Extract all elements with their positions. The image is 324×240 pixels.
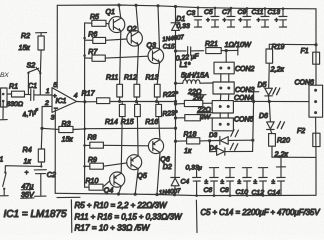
- wire input to R1: [7, 93, 12, 95]
- capacitor C12: [252, 168, 268, 197]
- wire Q3 collector to rail: [158, 6, 160, 50]
- resistor R21: [205, 40, 252, 54]
- capacitor C1: [28, 82, 37, 101]
- capacitor C13: [268, 9, 288, 27]
- node mid rail junctions: [252, 100, 271, 103]
- svg-text:R8: R8: [88, 134, 97, 141]
- resistor R4: [23, 128, 45, 166]
- wire R1 to C1: [25, 93, 31, 95]
- wire D1 to C15 node: [175, 31, 177, 51]
- resistor R23: [162, 105, 213, 121]
- wire output column L1 to R22: [175, 83, 177, 104]
- connector CON4: [212, 95, 253, 113]
- svg-text:CON6: CON6: [295, 80, 315, 87]
- wire Q3 emitter to R13: [157, 62, 160, 84]
- svg-text:R12: R12: [124, 74, 137, 81]
- svg-text:R17 = 10 ÷ 33Ω /5W: R17 = 10 ÷ 33Ω /5W: [75, 224, 151, 233]
- node R18 tee: [174, 140, 177, 143]
- svg-text:R11: R11: [106, 74, 118, 81]
- svg-text:Q6: Q6: [160, 155, 170, 163]
- svg-text:C14: C14: [268, 190, 281, 197]
- svg-text:R13: R13: [146, 74, 159, 81]
- svg-text:C5 ÷ C14 = 2200μF ÷ 4700μF/35V: C5 ÷ C14 = 2200μF ÷ 4700μF/35V: [201, 208, 321, 217]
- wire Q4 emitter to R14: [121, 117, 122, 174]
- wire C1 to IC1 pin1: [34, 94, 52, 96]
- resistor R14: [105, 102, 125, 126]
- svg-text:R16: R16: [145, 119, 158, 126]
- wire CON3-CON4 links: [220, 94, 228, 101]
- svg-text:±: ±: [205, 179, 209, 186]
- node R3 to bus: [84, 128, 87, 131]
- wire CON4-CON5 links: [220, 113, 228, 118]
- wire IC1 pin5 supply column to top rail: [56, 5, 58, 88]
- svg-text:+: +: [257, 17, 261, 24]
- wire output rail y101: [110, 101, 175, 103]
- svg-text:C12: C12: [252, 190, 265, 197]
- wire mid rail CON4 to CON6: [233, 100, 309, 102]
- svg-text:C3: C3: [187, 10, 196, 17]
- transistor Q6: [148, 138, 169, 163]
- svg-text:R1: R1: [9, 83, 18, 91]
- fuse F1: [301, 45, 320, 85]
- svg-text:D6: D6: [259, 113, 268, 120]
- node R23 tee: [174, 116, 177, 119]
- svg-text:C7: C7: [222, 9, 231, 16]
- resistor R15: [121, 102, 141, 126]
- wire main output column: [175, 7, 177, 23]
- capacitor C10: [236, 168, 252, 196]
- svg-text:1к: 1к: [24, 157, 32, 166]
- svg-text:C13: C13: [268, 9, 281, 16]
- diode D4: [210, 141, 253, 156]
- svg-text:R15: R15: [121, 119, 134, 126]
- svg-text:15к: 15к: [62, 136, 74, 144]
- svg-text:15к: 15к: [19, 44, 31, 52]
- transistor Q2: [127, 25, 143, 46]
- svg-text:0,33: 0,33: [177, 23, 190, 30]
- svg-text:S2: S2: [27, 62, 36, 70]
- svg-text:R18: R18: [184, 131, 197, 138]
- svg-text:+: +: [25, 170, 29, 177]
- svg-text:1: 1: [46, 88, 50, 95]
- svg-text:L1*: L1*: [180, 60, 191, 69]
- wire IC1 pin4 output: [77, 101, 85, 103]
- svg-text:Q3: Q3: [147, 41, 157, 49]
- capacitor C4: [181, 171, 201, 196]
- notes separator line: [195, 200, 198, 232]
- svg-text:C2: C2: [47, 171, 56, 179]
- wire Q1 emitter to R11: [120, 31, 121, 84]
- node D3 right junction: [251, 139, 254, 142]
- transistor Q1: [106, 8, 125, 33]
- svg-text:R14: R14: [105, 119, 118, 126]
- svg-text:R11 ÷ R16 = 0,15 ÷ 0,33Ω/3W: R11 ÷ R16 = 0,15 ÷ 0,33Ω/3W: [75, 213, 183, 222]
- svg-text:0,33μ: 0,33μ: [186, 165, 202, 172]
- wire top +V rail: [57, 5, 316, 9]
- transistor Q5: [127, 155, 147, 180]
- wire junction down to CON2: [225, 51, 227, 63]
- svg-text:±: ±: [221, 179, 225, 186]
- node F1 line junction: [314, 43, 317, 46]
- wire Q5 collector to rail: [135, 169, 138, 195]
- svg-text:Q5: Q5: [137, 172, 147, 180]
- ground input jack: [0, 119, 7, 121]
- wire D3/D4 right junction to mid rail: [253, 102, 254, 152]
- svg-text:+: +: [223, 17, 227, 24]
- switch S1: [0, 156, 7, 196]
- node C15 tee: [174, 49, 177, 52]
- svg-text:Q2: Q2: [127, 25, 137, 33]
- wire Q1 collector to rail: [119, 5, 121, 18]
- svg-text:C4: C4: [181, 179, 190, 186]
- diode D1: [171, 16, 185, 31]
- diode D6 zener: [259, 102, 285, 134]
- svg-text:C10: C10: [236, 189, 249, 196]
- capacitor C9: [238, 8, 252, 27]
- resistor R1: [7, 83, 25, 108]
- svg-text:R20: R20: [277, 137, 290, 144]
- svg-text:C11: C11: [252, 9, 264, 16]
- svg-text:R22*: R22*: [163, 91, 179, 99]
- svg-text:C5: C5: [204, 9, 213, 16]
- wire Q6 collector to rail: [157, 153, 160, 195]
- resistor R5: [85, 14, 109, 27]
- node D3/D4 left junction: [208, 139, 211, 142]
- wire bottom -V rail: [55, 193, 316, 195]
- svg-text:R17: R17: [82, 89, 96, 97]
- svg-text:2W: 2W: [192, 95, 204, 102]
- svg-text:R5: R5: [90, 14, 99, 21]
- capacitor C11: [252, 9, 270, 28]
- wire feedback node to output column: [86, 127, 176, 130]
- wire F2 to -V line: [272, 156, 316, 158]
- resistor R8: [85, 134, 149, 148]
- resistor R12: [124, 74, 140, 101]
- svg-text:2W: 2W: [199, 114, 211, 121]
- svg-text:D5: D5: [258, 82, 267, 89]
- wire R21 to tick end: [226, 49, 238, 51]
- resistor R6: [85, 31, 127, 43]
- node output junction: [83, 100, 86, 103]
- diode D2: [163, 164, 180, 195]
- svg-text:4: 4: [74, 92, 78, 99]
- svg-text:C15: C15: [163, 44, 175, 51]
- svg-text:Q4: Q4: [104, 186, 114, 194]
- svg-text:1к: 1к: [184, 146, 192, 155]
- capacitor C7: [222, 8, 235, 27]
- svg-text:R5 ÷ R10 = 2,2 ÷ 22Ω/3W: R5 ÷ R10 = 2,2 ÷ 22Ω/3W: [75, 201, 168, 210]
- resistor R9: [85, 157, 127, 169]
- svg-text:CON3: CON3: [235, 87, 255, 94]
- resistor R11: [106, 74, 123, 101]
- svg-text:D1: D1: [176, 16, 185, 23]
- node L1 tee: [174, 82, 177, 85]
- node R22 tee: [174, 102, 177, 105]
- node A R4/C2/S1: [40, 165, 42, 167]
- resistor R2: [19, 32, 47, 73]
- resistor R3 feedback: [42, 120, 85, 144]
- wire IC1 pin3 column to bottom rail: [54, 110, 56, 194]
- node rail junctions bottom: [117, 192, 264, 197]
- inductor L1: [176, 60, 214, 84]
- capacitor C15: [163, 44, 204, 56]
- node rail junctions top: [117, 4, 284, 11]
- switch S2 bypassing C1: [27, 62, 42, 95]
- svg-text:5: 5: [53, 82, 57, 89]
- svg-text:F2: F2: [297, 128, 305, 135]
- wire F2 column to bottom rail: [315, 157, 317, 195]
- connector CON3: [213, 82, 255, 94]
- wire Q6 emitter to R16: [159, 117, 160, 140]
- resistor R19: [266, 44, 284, 88]
- svg-text:C9: C9: [238, 9, 247, 16]
- transistor Q4: [104, 172, 125, 194]
- node output rail junctions: [118, 100, 177, 103]
- wire Q5 emitter to R15: [136, 117, 139, 156]
- svg-text:CON5: CON5: [234, 116, 254, 123]
- svg-text:R10: R10: [86, 178, 99, 185]
- svg-text:F1: F1: [301, 48, 309, 55]
- transistor Q3: [147, 41, 164, 63]
- svg-text:+: +: [206, 17, 210, 24]
- svg-text:+: +: [53, 93, 57, 100]
- notes box left border: [70, 200, 72, 233]
- wire base drive bus: [84, 23, 86, 187]
- svg-text:R23*: R23*: [162, 110, 178, 118]
- svg-text:1: 1: [0, 156, 3, 164]
- wire output column R18 to D2: [174, 141, 177, 177]
- svg-text:CON2: CON2: [235, 66, 255, 73]
- svg-text:2,2к: 2,2к: [270, 65, 285, 74]
- node bus junctions: [83, 37, 86, 168]
- capacitor C14: [268, 157, 286, 196]
- wire Q4 collector to rail: [119, 186, 122, 194]
- svg-text:5μH/15A: 5μH/15A: [181, 71, 209, 80]
- capacitor C8: [220, 168, 235, 196]
- svg-text:C8: C8: [220, 187, 229, 194]
- resistor R7: [85, 49, 149, 61]
- node feedback wire to output column junction: [174, 127, 177, 130]
- connector CON2: [214, 62, 255, 74]
- resistor R20: [269, 134, 290, 159]
- wire output column R23 to R18: [175, 118, 177, 141]
- resistor R22: [163, 87, 212, 107]
- ground C2: [35, 195, 46, 197]
- resistor R16: [145, 102, 161, 126]
- input connector jack: [1, 88, 7, 107]
- node feedback junction: [40, 127, 43, 130]
- svg-text:ВХ: ВХ: [0, 72, 9, 79]
- svg-text:R6: R6: [88, 31, 97, 38]
- fuse F2: [297, 117, 320, 157]
- wire CON2-CON3 links: [221, 74, 229, 82]
- svg-text:330Ω: 330Ω: [7, 101, 24, 108]
- svg-text:R2: R2: [21, 32, 30, 40]
- svg-text:C6: C6: [204, 187, 213, 194]
- svg-text:+: +: [275, 17, 279, 24]
- svg-text:R21: R21: [205, 41, 218, 48]
- svg-text:D4: D4: [210, 145, 218, 152]
- wire Q2 emitter to R12: [137, 45, 139, 85]
- svg-text:D2: D2: [163, 164, 172, 171]
- svg-text:D3: D3: [209, 132, 218, 139]
- diode D5 zener: [258, 82, 280, 102]
- svg-text:IC1 = LM1875: IC1 = LM1875: [4, 209, 68, 220]
- svg-text:R9: R9: [88, 157, 97, 164]
- capacitor C5: [204, 8, 219, 27]
- svg-text:R4: R4: [23, 145, 32, 154]
- resistor R17: [82, 89, 110, 103]
- capacitor C6: [204, 168, 219, 196]
- connector CON5: [212, 116, 253, 131]
- resistor R18: [176, 131, 210, 155]
- diode D3: [209, 130, 253, 145]
- wire jack sleeve to ground: [2, 102, 4, 119]
- svg-text:+: +: [239, 17, 243, 24]
- resistor R10: [85, 178, 110, 190]
- svg-text:±: ±: [238, 179, 242, 186]
- wire IC1 pin2 to feedback node: [42, 106, 52, 128]
- wire right edge rail down to F1: [315, 9, 317, 45]
- wire R19 top to F1 line: [269, 43, 316, 45]
- svg-text:3: 3: [51, 115, 55, 122]
- node tick terminal: [237, 46, 239, 55]
- svg-text:Q1: Q1: [106, 8, 116, 16]
- capacitor C3: [187, 8, 203, 27]
- wire output column D1 to L1: [175, 51, 177, 83]
- notes box top border: [57, 196, 80, 198]
- ground S1: [0, 195, 8, 197]
- wire node A to switch S1: [5, 166, 41, 172]
- svg-text:±: ±: [272, 179, 276, 186]
- resistor R13: [146, 74, 161, 101]
- wire output column R22 to R23: [175, 104, 177, 118]
- svg-text:C1: C1: [28, 82, 37, 90]
- node tee terminal on mid rail: [249, 92, 259, 102]
- node R21 out junction: [225, 49, 228, 52]
- op-amp IC1 LM1875 triangle: [52, 88, 77, 113]
- wire Q2 collector to rail: [136, 5, 138, 32]
- svg-text:R3: R3: [62, 120, 71, 128]
- connector CON6: [295, 80, 323, 118]
- capacitor C2: [21, 170, 56, 200]
- svg-text:R7: R7: [88, 49, 98, 56]
- svg-text:±: ±: [254, 179, 258, 186]
